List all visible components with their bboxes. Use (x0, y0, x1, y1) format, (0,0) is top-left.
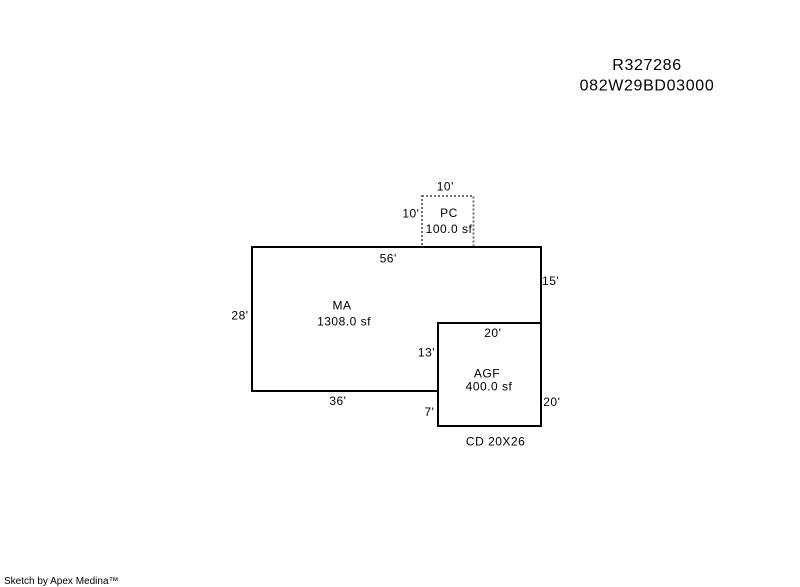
svg-text:082W29BD03000: 082W29BD03000 (580, 78, 715, 95)
svg-text:AGF: AGF (474, 366, 500, 380)
svg-text:7': 7' (424, 405, 434, 419)
svg-text:Sketch by Apex Medina™: Sketch by Apex Medina™ (4, 576, 119, 587)
svg-text:15': 15' (542, 274, 559, 288)
garage AGF outline (438, 323, 541, 426)
svg-text:CD 20X26: CD 20X26 (466, 435, 525, 449)
svg-text:56': 56' (380, 252, 397, 266)
svg-text:400.0 sf: 400.0 sf (466, 380, 513, 394)
main area MA outline (L-shape) (252, 247, 541, 391)
porch PC dashed outline (422, 196, 474, 247)
svg-text:20': 20' (484, 326, 501, 340)
svg-text:13': 13' (418, 346, 435, 360)
svg-text:10': 10' (437, 180, 454, 194)
svg-text:28': 28' (231, 309, 248, 323)
svg-text:R327286: R327286 (612, 57, 682, 74)
svg-text:20': 20' (543, 395, 560, 409)
svg-text:1308.0 sf: 1308.0 sf (317, 315, 371, 329)
svg-text:MA: MA (333, 298, 352, 312)
svg-text:100.0 sf: 100.0 sf (426, 222, 473, 236)
svg-text:36': 36' (329, 394, 346, 408)
svg-text:10': 10' (402, 206, 419, 220)
svg-text:PC: PC (440, 206, 458, 220)
